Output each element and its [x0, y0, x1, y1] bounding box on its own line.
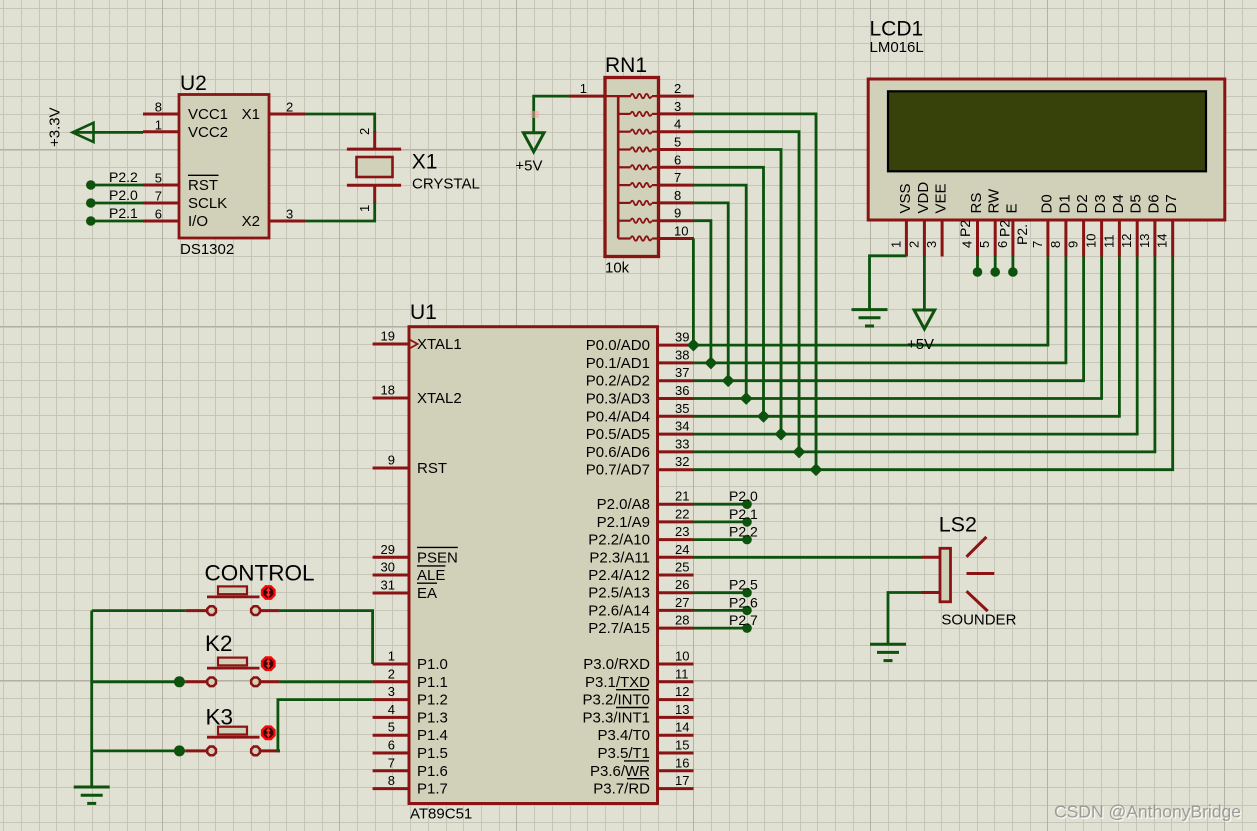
power +5V symbol (RN1)	[523, 133, 544, 152]
LCD1 screen	[888, 91, 1206, 171]
button CONTROL actuator cap	[218, 586, 247, 594]
power +3.3V symbol	[73, 123, 94, 142]
svg-text:P2: P2	[957, 220, 973, 237]
U1 right pin name labels	[582, 337, 650, 797]
button K2 left terminal	[186, 680, 206, 683]
U2 pin 1 stub	[143, 130, 179, 133]
svg-text:RW: RW	[986, 188, 1003, 214]
svg-text:VEE: VEE	[933, 183, 950, 213]
svg-text:25: 25	[675, 560, 689, 575]
junction dot P2.2	[86, 180, 96, 190]
svg-text:8: 8	[1048, 241, 1063, 248]
svg-text:XTAL1: XTAL1	[417, 336, 462, 353]
junction P0.7 bus	[811, 464, 822, 475]
junction dot LCD E	[1008, 267, 1018, 277]
svg-text:SCLK: SCLK	[188, 195, 227, 212]
svg-text:CONTROL: CONTROL	[205, 561, 315, 586]
svg-text:P2.5: P2.5	[729, 577, 758, 593]
wire crystal pin 1 to U2 X2	[305, 202, 375, 221]
RN1 pin 1 stub	[569, 95, 605, 98]
RN1 right pin stubs	[659, 96, 695, 238]
wire net P2.0	[694, 503, 748, 506]
wire LCD VDD to +5V	[923, 256, 926, 309]
U2 pin 7 stub	[143, 202, 179, 205]
svg-text:15: 15	[675, 738, 689, 753]
ground symbol (LS2)	[870, 643, 906, 646]
svg-text:33: 33	[675, 436, 689, 451]
svg-text:P1.1: P1.1	[417, 674, 448, 691]
svg-text:14: 14	[1155, 234, 1170, 248]
wire P0.2 to LCD D2	[694, 257, 1084, 381]
svg-text:24: 24	[675, 542, 689, 557]
svg-text:D1: D1	[1056, 194, 1073, 213]
svg-text:1: 1	[357, 205, 372, 212]
wire P0.5 to LCD D5	[694, 257, 1138, 435]
wire P0.1 to LCD D1	[694, 257, 1066, 363]
svg-text:8: 8	[388, 773, 395, 788]
svg-text:21: 21	[675, 489, 689, 504]
svg-text:P3.1/TXD: P3.1/TXD	[585, 674, 650, 691]
svg-text:8: 8	[674, 188, 681, 203]
U1 left pin name labels	[417, 336, 462, 798]
wire RN1 pin7 to P0.3 net	[694, 185, 746, 398]
svg-text:P0.1/AD1: P0.1/AD1	[586, 355, 650, 372]
button K3 actuator bar	[207, 736, 260, 739]
svg-text:P2.2: P2.2	[109, 169, 138, 185]
svg-text:P1.6: P1.6	[417, 763, 448, 780]
svg-text:39: 39	[675, 330, 689, 345]
junction dot P2.2	[742, 535, 752, 545]
button CONTROL operate icon	[262, 586, 274, 598]
svg-text:7: 7	[388, 755, 395, 770]
svg-text:37: 37	[675, 365, 689, 380]
wire ground rail vertical	[90, 611, 93, 787]
button K3 right terminal	[261, 749, 280, 752]
svg-text:1: 1	[155, 117, 162, 132]
svg-text:P0.6/AD6: P0.6/AD6	[586, 444, 650, 461]
svg-text:AT89C51: AT89C51	[410, 806, 472, 823]
wire net P2.1 to U2 I/O	[91, 220, 143, 223]
button K2 operate icon	[262, 658, 274, 670]
svg-text:35: 35	[675, 401, 689, 416]
svg-text:11: 11	[1101, 235, 1116, 249]
svg-text:P2.6: P2.6	[729, 594, 758, 610]
junction dot P2.6	[742, 606, 752, 616]
svg-text:P2.3/A11: P2.3/A11	[589, 549, 650, 566]
wire LCD RW net stub	[994, 256, 997, 268]
svg-text:2: 2	[357, 128, 372, 135]
svg-text:P0.0/AD0: P0.0/AD0	[586, 337, 650, 354]
svg-text:P1.3: P1.3	[417, 709, 448, 726]
svg-text:RST: RST	[417, 460, 447, 477]
junction P0.2 bus	[723, 375, 734, 386]
svg-text:P0.7/AD7: P0.7/AD7	[586, 462, 650, 479]
svg-text:P2.2: P2.2	[729, 524, 758, 540]
junction P0.0 bus	[688, 340, 699, 351]
svg-text:P2.1: P2.1	[109, 205, 138, 221]
svg-text:LCD1: LCD1	[870, 18, 924, 41]
svg-text:D0: D0	[1038, 194, 1055, 213]
svg-text:4: 4	[388, 702, 395, 717]
RN1 resistor elements	[618, 94, 658, 241]
svg-text:P1.5: P1.5	[417, 745, 448, 762]
wire RN1 pin1 to +5V	[534, 96, 569, 132]
svg-text:P2.1: P2.1	[729, 506, 758, 522]
wire P0.0 to LCD D0	[694, 257, 1048, 346]
svg-text:P2.2/A10: P2.2/A10	[588, 532, 650, 549]
svg-text:6: 6	[674, 152, 681, 167]
wire RN1 pin9 to P0.1 net	[694, 221, 711, 363]
button K3 operate icon	[262, 727, 274, 739]
junction dot K3 left	[174, 745, 185, 756]
RN1 pin1 internal lead	[606, 95, 631, 97]
svg-text:7: 7	[674, 170, 681, 185]
sounder LS2 body	[940, 548, 951, 602]
RN1 right pin numbers	[674, 81, 688, 238]
svg-text:ALE: ALE	[417, 567, 445, 584]
button K2 right terminal	[261, 680, 280, 683]
LCD1 pin numbers	[888, 234, 1169, 248]
svg-text:4: 4	[960, 241, 975, 248]
svg-text:RS: RS	[968, 193, 985, 214]
chip U1 AT89C51 body	[409, 327, 658, 804]
U1 left pin stubs	[373, 344, 409, 789]
svg-text:RST: RST	[188, 177, 218, 194]
wire RN1 pin8 to P0.2 net	[694, 203, 728, 381]
svg-text:K2: K2	[205, 631, 233, 656]
svg-text:P0.3/AD3: P0.3/AD3	[586, 391, 650, 408]
svg-text:D6: D6	[1145, 194, 1162, 213]
svg-text:P3.4/T0: P3.4/T0	[597, 727, 650, 744]
LS2 sound ray middle	[967, 572, 995, 575]
wire RN1 pin3 to P0.7 net	[694, 114, 816, 470]
wire P0.6 to LCD D6	[694, 257, 1155, 452]
wire net P2.1	[694, 521, 748, 524]
svg-text:9: 9	[388, 453, 395, 468]
svg-text:P0.5/AD5: P0.5/AD5	[586, 426, 650, 443]
button CONTROL right terminal	[261, 609, 280, 612]
crystal X1 bottom plate	[347, 184, 401, 187]
U2 pin 2 stub	[269, 113, 305, 116]
junction dot P2.0	[86, 198, 96, 208]
svg-text:22: 22	[675, 506, 689, 521]
svg-text:D2: D2	[1074, 194, 1091, 213]
wire net P2.7	[694, 627, 748, 630]
junction dot P2.1	[86, 216, 96, 226]
svg-text:12: 12	[675, 684, 689, 699]
junction P0.5 bus	[776, 429, 787, 440]
svg-text:P2.7/A15: P2.7/A15	[588, 620, 650, 637]
svg-text:D3: D3	[1092, 194, 1109, 213]
crystal X1 pin 2 stub	[373, 131, 376, 149]
wire P0.7 to LCD D7	[694, 257, 1173, 470]
svg-text:P0.2/AD2: P0.2/AD2	[586, 373, 650, 390]
svg-text:19: 19	[381, 329, 395, 344]
ground symbol (buttons)	[74, 786, 110, 789]
svg-text:VDD: VDD	[915, 182, 932, 214]
wire U2 X1 to crystal pin 2	[305, 114, 375, 132]
wire RN1 pin10 to P0.0 net	[692, 239, 695, 346]
svg-text:DS1302: DS1302	[180, 241, 234, 258]
junction dot P2.7	[742, 623, 752, 633]
svg-text:2: 2	[286, 100, 293, 115]
wire RN1 pin5 to P0.5 net	[694, 150, 781, 435]
wire RN1 pin6 to P0.4 net	[694, 167, 764, 416]
wire LCD VSS to ground	[870, 256, 907, 310]
LS2 top pin stub	[922, 556, 941, 559]
U1 right pin stubs	[658, 345, 694, 788]
svg-text:+3.3V: +3.3V	[47, 107, 64, 147]
junction P0.6 bus	[794, 447, 805, 458]
svg-text:P1.4: P1.4	[417, 727, 448, 744]
svg-text:U1: U1	[410, 301, 437, 324]
svg-text:D7: D7	[1163, 194, 1180, 213]
svg-text:U2: U2	[180, 72, 207, 95]
svg-text:13: 13	[1137, 234, 1152, 248]
wire P0.4 to LCD D4	[694, 257, 1120, 417]
svg-text:D4: D4	[1110, 194, 1127, 213]
wire K3 left to rail	[92, 750, 186, 753]
artifact pink marker	[531, 111, 540, 118]
svg-text:P2.6/A14: P2.6/A14	[588, 602, 650, 619]
svg-text:X1: X1	[242, 106, 260, 123]
wire RN1 pin4 to P0.6 net	[694, 132, 799, 452]
LCD1 pin stubs	[906, 220, 1172, 257]
svg-text:3: 3	[924, 241, 939, 248]
svg-text:27: 27	[675, 595, 689, 610]
wire LCD E net stub	[1012, 256, 1015, 268]
wire U1 P2.3 to LS2	[694, 556, 922, 559]
svg-text:I/O: I/O	[188, 213, 208, 230]
resistor network RN1 body	[605, 78, 659, 257]
wire net P2.5	[694, 591, 748, 594]
svg-text:2: 2	[388, 666, 395, 681]
svg-text:P2.0: P2.0	[729, 488, 758, 504]
wire net P2.2 to U2 RST	[91, 184, 143, 187]
wire K2 left to rail	[92, 680, 186, 683]
svg-text:7: 7	[1030, 241, 1045, 248]
wire K3 right to U1 P1.2	[278, 700, 373, 751]
svg-text:14: 14	[675, 720, 689, 735]
svg-text:9: 9	[674, 206, 681, 221]
LCD1 body	[868, 79, 1225, 220]
svg-text:X1: X1	[412, 151, 438, 174]
button K3 actuator cap	[218, 727, 247, 735]
svg-text:RN1: RN1	[605, 54, 647, 77]
U2 pin 6 stub	[143, 220, 179, 223]
svg-text:P3.0/RXD: P3.0/RXD	[583, 656, 650, 673]
svg-text:1: 1	[888, 241, 903, 248]
svg-text:P3.5/T1: P3.5/T1	[597, 745, 650, 762]
svg-text:P1.0: P1.0	[417, 656, 448, 673]
svg-text:P2.0/A8: P2.0/A8	[597, 496, 650, 513]
junction P0.3 bus	[741, 393, 752, 404]
svg-text:P0.4/AD4: P0.4/AD4	[586, 408, 650, 425]
svg-text:XTAL2: XTAL2	[417, 390, 462, 407]
button CONTROL left terminal	[186, 609, 206, 612]
svg-text:VCC1: VCC1	[188, 106, 228, 123]
power +5V symbol (LCD)	[914, 310, 935, 329]
svg-text:CRYSTAL: CRYSTAL	[412, 176, 480, 193]
svg-text:VSS: VSS	[897, 183, 914, 213]
svg-text:12: 12	[1119, 234, 1134, 248]
wire net P2.0 to U2 SCLK	[91, 202, 143, 205]
svg-text:6: 6	[388, 738, 395, 753]
svg-text:18: 18	[381, 383, 395, 398]
svg-text:+5V: +5V	[515, 158, 542, 175]
wire P0.3 to LCD D3	[694, 257, 1102, 399]
svg-text:P2.7: P2.7	[729, 612, 758, 628]
svg-text:P2.: P2.	[1014, 224, 1030, 245]
svg-text:P3.2/INT0: P3.2/INT0	[582, 692, 650, 709]
svg-text:LS2: LS2	[939, 513, 977, 537]
button K2 actuator cap	[218, 658, 247, 666]
wire K2 right to U1 P1.1	[280, 680, 373, 683]
svg-text:P2.5/A13: P2.5/A13	[588, 585, 650, 602]
svg-text:3: 3	[674, 99, 681, 114]
crystal X1 pin 1 stub	[373, 185, 376, 203]
button K2 actuator bar	[207, 667, 260, 670]
svg-text:3: 3	[388, 684, 395, 699]
svg-text:CSDN @AnthonyBridge: CSDN @AnthonyBridge	[1054, 802, 1241, 822]
junction P0.1 bus	[706, 358, 717, 369]
svg-text:34: 34	[675, 419, 689, 434]
svg-text:10k: 10k	[605, 260, 630, 277]
svg-text:LM016L: LM016L	[870, 39, 924, 56]
chip U2 pin name labels	[188, 106, 260, 230]
svg-text:7: 7	[155, 189, 162, 204]
chip U2 DS1302 body	[179, 95, 269, 239]
svg-text:13: 13	[675, 702, 689, 717]
LS2 sound ray lower	[967, 591, 988, 611]
junction dot K2 left	[174, 676, 185, 687]
wire LS2 to ground	[888, 593, 922, 645]
svg-text:SOUNDER: SOUNDER	[941, 612, 1016, 629]
svg-text:D5: D5	[1128, 194, 1145, 213]
button K3 left terminal	[186, 749, 206, 752]
U1 right pin numbers	[675, 330, 689, 788]
wire CONTROL left to rail	[92, 609, 186, 612]
LS2 sound ray upper	[967, 537, 987, 557]
svg-text:10: 10	[675, 649, 689, 664]
junction dot P2.0	[742, 499, 752, 509]
svg-text:X2: X2	[242, 213, 260, 230]
U2 pin 5 stub	[143, 184, 179, 187]
svg-text:VCC2: VCC2	[188, 124, 228, 141]
svg-text:+5V: +5V	[907, 336, 934, 353]
svg-text:P1.7: P1.7	[417, 781, 448, 798]
U2 pin 8 stub	[143, 113, 179, 116]
svg-text:17: 17	[675, 773, 689, 788]
svg-text:6: 6	[155, 207, 162, 222]
RN1 common rail	[617, 96, 620, 238]
U2 pin 3 stub	[269, 220, 305, 223]
svg-text:28: 28	[675, 613, 689, 628]
svg-text:P2.1/A9: P2.1/A9	[597, 514, 650, 531]
button CONTROL actuator bar	[207, 596, 260, 599]
U1 left pin numbers	[381, 329, 395, 789]
svg-text:P3.3/INT1: P3.3/INT1	[582, 709, 650, 726]
svg-text:P3.7/RD: P3.7/RD	[593, 781, 650, 798]
svg-text:9: 9	[1066, 241, 1081, 248]
junction P0.4 bus	[758, 411, 769, 422]
svg-text:23: 23	[675, 524, 689, 539]
svg-text:5: 5	[155, 171, 162, 186]
wire net P2.2	[694, 538, 748, 541]
svg-text:29: 29	[381, 542, 395, 557]
junction dot LCD RS	[973, 267, 983, 277]
svg-text:P2.0: P2.0	[109, 187, 138, 203]
svg-text:P1.2: P1.2	[417, 692, 448, 709]
wire CONTROL right to U1 P1.0	[280, 611, 373, 664]
svg-text:30: 30	[381, 560, 395, 575]
wire LCD RS net stub	[976, 256, 979, 268]
svg-text:P2.4/A12: P2.4/A12	[588, 567, 650, 584]
svg-text:E: E	[1003, 203, 1020, 213]
svg-text:4: 4	[674, 117, 681, 132]
svg-text:2: 2	[906, 241, 921, 248]
svg-text:32: 32	[675, 454, 689, 469]
svg-text:8: 8	[155, 100, 162, 115]
chip U2 pin numbers	[155, 100, 293, 222]
wire +3.3V to U2 VCC2	[73, 131, 144, 134]
svg-text:2: 2	[674, 81, 681, 96]
svg-text:P3.6/WR: P3.6/WR	[590, 763, 650, 780]
svg-text:6: 6	[995, 241, 1010, 248]
LS2 bottom pin stub	[922, 591, 941, 594]
junction dot P2.5	[742, 588, 752, 598]
wire net P2.6	[694, 609, 748, 612]
U1 XTAL1 clock arrow	[410, 340, 418, 349]
svg-text:38: 38	[675, 347, 689, 362]
svg-text:5: 5	[977, 241, 992, 248]
junction dot P2.1	[742, 517, 752, 527]
LCD1 pin name labels	[897, 182, 1180, 214]
svg-text:P2: P2	[997, 220, 1013, 237]
svg-text:3: 3	[286, 207, 293, 222]
svg-text:36: 36	[675, 383, 689, 398]
svg-text:5: 5	[388, 720, 395, 735]
ground symbol (LCD)	[852, 308, 888, 311]
svg-text:1: 1	[388, 649, 395, 664]
svg-text:26: 26	[675, 577, 689, 592]
svg-text:31: 31	[381, 578, 395, 593]
svg-text:11: 11	[675, 666, 689, 681]
svg-text:10: 10	[1084, 234, 1099, 248]
svg-text:10: 10	[674, 224, 688, 239]
svg-text:EA: EA	[417, 585, 437, 602]
svg-text:PSEN: PSEN	[417, 549, 458, 566]
crystal X1 body	[357, 157, 393, 177]
junction dot LCD RW	[990, 267, 1000, 277]
svg-text:5: 5	[674, 135, 681, 150]
svg-text:16: 16	[675, 755, 689, 770]
svg-text:1: 1	[580, 81, 587, 96]
crystal X1 top plate	[347, 148, 401, 151]
